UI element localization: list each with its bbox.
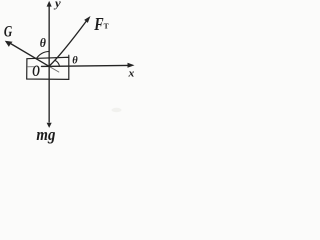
x-axis — [28, 63, 135, 68]
svg-text:O: O — [32, 62, 40, 80]
faint scan smudge — [112, 108, 122, 112]
svg-text:x: x — [127, 68, 134, 79]
force vector G — [5, 41, 49, 67]
label G — [4, 24, 12, 41]
force vector F_T — [49, 16, 91, 66]
box (object) at origin — [27, 55, 69, 79]
svg-text:θ: θ — [72, 54, 78, 66]
wire: G line overshoot through origin — [49, 66, 59, 72]
angle label theta (left, between G and y-axis) — [40, 36, 47, 50]
angle label theta (right, between F_T and x-axis) — [72, 54, 78, 66]
angle arc between F_T and x-axis — [55, 60, 60, 66]
label F_T — [93, 15, 108, 34]
x-axis label x — [127, 68, 134, 79]
svg-text:T: T — [104, 22, 109, 31]
svg-text:y: y — [53, 0, 61, 10]
weight vector mg — [47, 66, 52, 128]
y-axis — [47, 1, 52, 66]
svg-text:G: G — [4, 24, 12, 41]
angle arc between G and y-axis — [36, 52, 49, 59]
svg-text:F: F — [93, 15, 103, 34]
svg-text:mg: mg — [36, 126, 55, 144]
y-axis label y — [53, 0, 61, 10]
svg-text:θ: θ — [40, 36, 47, 50]
origin label O — [32, 62, 40, 80]
label mg — [36, 126, 55, 144]
